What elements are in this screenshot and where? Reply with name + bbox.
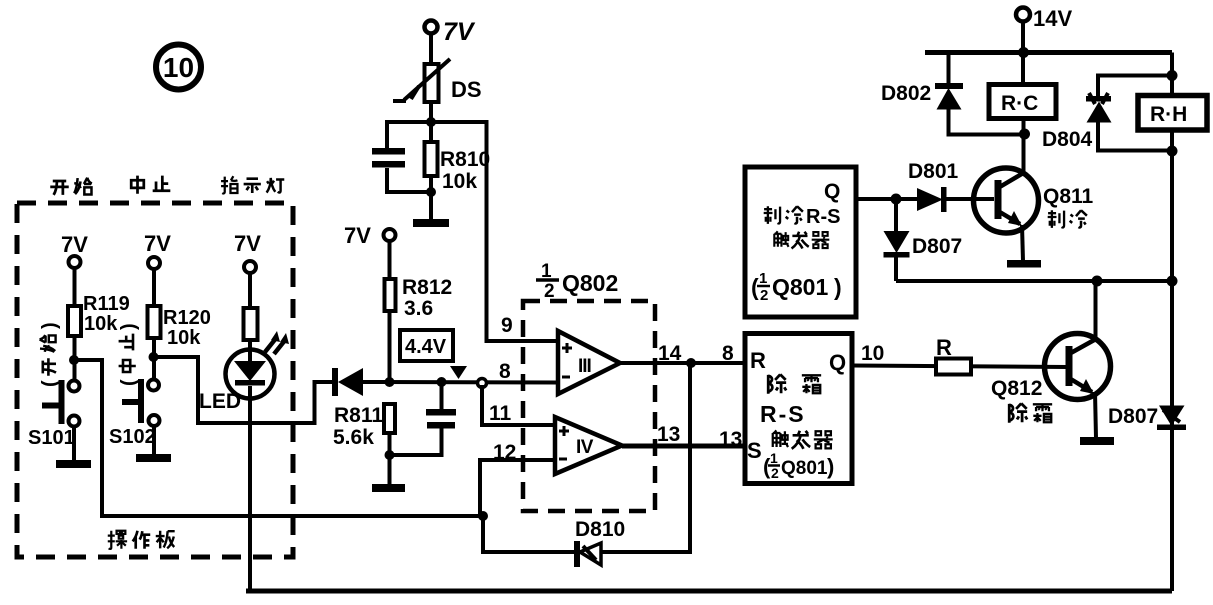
wire node to LED-diode run	[154, 357, 334, 423]
diode D810	[574, 518, 625, 567]
svg-text:Q: Q	[824, 180, 840, 203]
node cap2 top	[437, 377, 447, 387]
wire resistor to LED	[248, 340, 252, 362]
wire Q812 emitter to ground	[1095, 392, 1096, 438]
wire top supply bus	[925, 50, 1172, 55]
svg-text:S102: S102	[109, 426, 156, 448]
transistor Q812	[991, 334, 1111, 423]
diode D804	[1042, 76, 1172, 152]
svg-text:DS: DS	[451, 77, 482, 102]
wire D801 to Q811 base	[946, 197, 994, 201]
LED D1	[199, 331, 289, 413]
svg-text:R-S: R-S	[760, 401, 806, 427]
resistor R119	[68, 293, 130, 336]
wire R811 to ground	[388, 433, 392, 484]
svg-text:(: (	[39, 380, 61, 387]
svg-text:R-S: R-S	[806, 206, 840, 228]
svg-text:D801: D801	[908, 160, 959, 183]
wire output 13	[622, 444, 745, 449]
wire 8 line	[363, 380, 559, 385]
svg-text:14: 14	[658, 342, 682, 365]
terminal 7V (R120)	[144, 231, 171, 269]
ground (R810)	[413, 219, 449, 227]
wire Q811 emitter to ground	[1022, 225, 1023, 261]
node terminal (pin8 circle)	[478, 379, 487, 388]
svg-text:4.4V: 4.4V	[405, 336, 447, 358]
wire node to pin12 run (down at x=102)	[74, 360, 484, 516]
svg-text:R119: R119	[83, 293, 130, 315]
rotated label (中止)	[118, 323, 140, 386]
svg-text:(: (	[118, 379, 140, 386]
svg-text:7V: 7V	[443, 18, 476, 46]
voltage box 4.4V	[400, 330, 453, 361]
svg-text:): )	[827, 454, 834, 479]
wire Q811 collector up	[1022, 134, 1026, 172]
svg-text:14V: 14V	[1033, 6, 1072, 31]
svg-text:1: 1	[770, 450, 778, 466]
node D804 top	[1167, 70, 1178, 81]
svg-text:S101: S101	[28, 427, 75, 449]
terminal 7V (LED)	[234, 231, 261, 273]
wire R120 to S102	[152, 338, 156, 379]
svg-text:1: 1	[759, 270, 767, 287]
svg-text:D802: D802	[881, 82, 931, 105]
svg-text:7V: 7V	[144, 231, 171, 256]
wire Q output to D801	[856, 197, 917, 201]
svg-text:III: III	[578, 356, 592, 377]
wire DS to R810	[429, 102, 433, 142]
dashed box 1/2 Q802	[523, 301, 655, 511]
relay box R.C	[989, 85, 1056, 119]
diode D807 (defrost rail)	[1108, 405, 1186, 430]
node R811/cap2 bottom	[385, 450, 395, 460]
wire LED to bottom bus	[248, 386, 252, 591]
svg-text:7V: 7V	[234, 231, 261, 256]
wire pin 11	[482, 385, 556, 425]
node R119/S101 junction	[69, 355, 79, 365]
figure number 10 badge	[156, 45, 201, 90]
node Q/D801/D807	[891, 194, 902, 205]
wire bottom bus	[246, 589, 1172, 594]
wire 7V to LED resistor	[248, 273, 252, 308]
svg-text:D807: D807	[1108, 405, 1158, 428]
wire 7V to R120	[152, 269, 156, 306]
marker 4.4V arrow	[450, 366, 467, 379]
svg-text:IV: IV	[576, 437, 594, 458]
ground (Q811)	[1007, 260, 1041, 268]
label 开始	[50, 178, 92, 195]
wire R119 to S101	[73, 336, 77, 380]
wire Q812 base run	[852, 366, 1067, 368]
relay box R.H	[1138, 96, 1207, 131]
op-amp III	[558, 331, 620, 394]
wire 7V to R119	[73, 268, 77, 306]
node 14	[686, 358, 696, 368]
trigger box U1 制冷R-S触发器	[745, 167, 856, 317]
svg-text:2: 2	[760, 287, 768, 304]
switch S102	[109, 379, 160, 448]
switch S101	[28, 380, 80, 449]
transistor Q811	[974, 168, 1094, 233]
svg-text:13: 13	[657, 423, 680, 446]
svg-text:D807: D807	[912, 235, 962, 258]
wire 7V to DS	[429, 33, 433, 64]
diode D807 (freewheel at Q box)	[884, 199, 963, 281]
node D804 bottom	[1167, 146, 1178, 157]
node R810/cap bottom	[426, 187, 436, 197]
svg-text:7V: 7V	[344, 223, 371, 248]
svg-text:): )	[834, 274, 842, 300]
svg-text:R: R	[936, 335, 952, 360]
terminal 14V	[1016, 6, 1072, 31]
resistor R811	[333, 404, 395, 449]
svg-text:Q802: Q802	[562, 270, 618, 296]
resistor R120	[148, 306, 211, 349]
svg-text:5.6k: 5.6k	[333, 426, 374, 449]
node 14V/bus	[1018, 47, 1029, 58]
terminal 7V (R119)	[61, 232, 88, 268]
wire R.C to collector node	[1022, 118, 1026, 172]
wire 7V to R812	[388, 241, 392, 279]
svg-text:11: 11	[489, 402, 512, 425]
wire S101 to ground	[72, 426, 76, 461]
svg-text:8: 8	[722, 342, 734, 365]
svg-text:2: 2	[771, 465, 779, 481]
terminal 7V (R812)	[344, 223, 396, 248]
wire R810 to ground	[429, 176, 433, 220]
node R812/diode	[385, 377, 395, 387]
svg-text:S: S	[747, 438, 762, 463]
rotated label (开始)	[39, 322, 61, 387]
label 1/2 Q802	[536, 261, 618, 302]
wire output 14	[620, 361, 745, 365]
svg-text:Q801: Q801	[772, 274, 828, 300]
svg-text:10k: 10k	[442, 170, 477, 193]
terminal 7V (DS)	[425, 18, 476, 46]
node R120/S102 junction	[149, 352, 159, 362]
svg-text:): )	[118, 323, 140, 330]
diode (to LED branch)	[332, 368, 363, 396]
resistor R812	[385, 276, 453, 320]
resistor (LED series)	[244, 308, 258, 340]
svg-text:R811: R811	[334, 404, 383, 427]
node right rail tap	[1167, 276, 1178, 287]
label 操作板	[108, 531, 175, 549]
svg-text:R810: R810	[440, 148, 490, 171]
svg-text:12: 12	[493, 441, 516, 464]
svg-text:8: 8	[499, 360, 511, 383]
svg-text:Q812: Q812	[991, 377, 1042, 400]
wire D810 branch	[483, 363, 690, 552]
node pin12/panel wire/D810	[478, 511, 488, 521]
svg-text:9: 9	[501, 314, 513, 337]
label 指示灯	[221, 176, 284, 193]
diode D801	[908, 160, 959, 212]
svg-text:10: 10	[163, 52, 194, 83]
svg-text:7V: 7V	[61, 232, 88, 257]
wire node to pin9 run	[431, 122, 559, 341]
wire D807 bottom run to right rail	[896, 279, 1172, 283]
thermistor DS	[393, 59, 482, 102]
ground (R811)	[372, 484, 405, 492]
capacitor C2	[390, 385, 457, 455]
dashed box 操作板 panel	[17, 203, 293, 557]
wire S102 to ground	[152, 426, 156, 455]
ground (S101)	[56, 460, 91, 468]
svg-text:LED: LED	[199, 390, 241, 413]
svg-text:2: 2	[544, 281, 555, 302]
resistor R (base)	[936, 335, 971, 375]
svg-text:Q801: Q801	[781, 458, 828, 479]
svg-text:13: 13	[719, 428, 742, 451]
resistor R810	[425, 142, 491, 193]
svg-text:10k: 10k	[84, 313, 118, 335]
diode D802	[881, 52, 1022, 135]
svg-text:3.6: 3.6	[404, 297, 433, 320]
svg-text:R120: R120	[163, 307, 211, 329]
wire R812 to node	[388, 311, 392, 382]
svg-text:R: R	[750, 348, 766, 373]
svg-text:D804: D804	[1042, 128, 1093, 151]
ground (Q812)	[1080, 437, 1114, 445]
svg-text:10k: 10k	[167, 327, 201, 349]
node DS/R810	[426, 117, 436, 127]
svg-text:D810: D810	[575, 518, 625, 541]
svg-text:Q: Q	[829, 350, 846, 375]
node Q812 collector tap	[1092, 276, 1103, 287]
label 中止	[131, 176, 170, 194]
svg-text:R812: R812	[402, 276, 452, 299]
wire pin 12	[480, 460, 556, 516]
svg-text:10: 10	[861, 342, 884, 365]
svg-text:): )	[39, 322, 61, 329]
svg-text:R·H: R·H	[1150, 103, 1187, 126]
capacitor C (filter)	[372, 122, 431, 192]
svg-text:R·C: R·C	[1001, 92, 1038, 115]
node R.C/D802	[1019, 129, 1030, 140]
wire right rail	[1170, 53, 1174, 592]
ground (S102)	[136, 454, 171, 462]
svg-text:Q811: Q811	[1043, 185, 1094, 208]
trigger box U2 除霜R-S触发器	[745, 334, 852, 484]
op-amp IV	[555, 417, 622, 474]
wire 14V down	[1021, 21, 1025, 84]
wire Q812 collector up	[1094, 281, 1098, 340]
